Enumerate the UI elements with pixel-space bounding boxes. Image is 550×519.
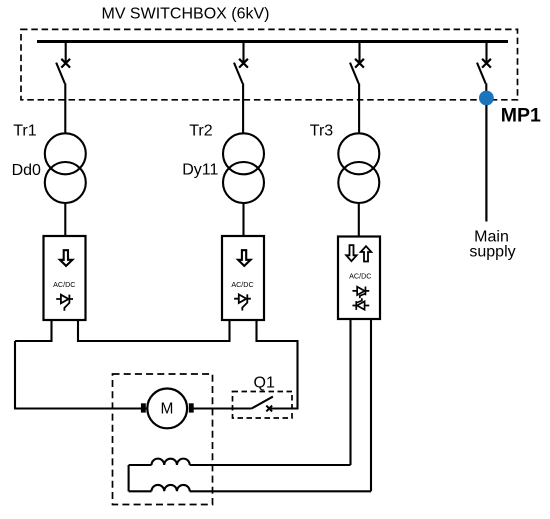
svg-text:AC/DC: AC/DC: [349, 272, 371, 281]
wire U1 right terminal to U2 left terminal (DC rail): [78, 320, 230, 341]
busbar: [37, 40, 508, 43]
breaker CB1 stub: [65, 42, 67, 63]
svg-text:Tr3: Tr3: [310, 123, 334, 140]
converter U3 up-arrow: [361, 246, 372, 261]
transformer Tr2: [223, 133, 264, 174]
breaker CB4 contact X: [482, 59, 491, 68]
wire CB1 to Tr1: [64, 83, 66, 134]
node MP1 (blue dot): [479, 91, 494, 106]
converter U3 thyristor symbol right: [352, 287, 369, 299]
motor brush right: [189, 403, 194, 412]
switch Q1 contact X: [266, 406, 272, 412]
converter U2 down-arrow: [238, 250, 251, 266]
wire U3 right terminal to L2: [370, 319, 372, 491]
MV switchbox dashed enclosure: [21, 29, 518, 99]
converter U1 down-arrow: [60, 250, 73, 266]
svg-text:AC/DC: AC/DC: [53, 280, 75, 289]
converter U1 thyristor symbol: [56, 295, 73, 311]
wire U2 right terminal to Q1: [257, 320, 298, 409]
svg-text:Tr2: Tr2: [189, 123, 213, 140]
motor M armature: [147, 389, 187, 429]
svg-text:Q1: Q1: [254, 374, 275, 391]
breaker CB4 stub: [485, 42, 487, 63]
converter U3 box: [338, 237, 380, 320]
converter U3 thyristor symbol left: [352, 298, 369, 310]
switch Q1 dashed enclosure: [233, 392, 293, 419]
wire CB3 to Tr3: [358, 83, 360, 134]
wire U1 left terminal: [15, 320, 52, 341]
wire CB2 to Tr2: [242, 83, 244, 134]
svg-text:Tr1: Tr1: [13, 123, 37, 140]
wire Tr1 to converter U1: [64, 203, 66, 236]
transformer Tr1: [45, 133, 86, 174]
breaker CB2 blade: [234, 63, 243, 84]
breaker CB3 blade: [350, 63, 359, 84]
wire Tr2 to converter U2: [242, 203, 244, 236]
converter U3 down-arrow: [346, 245, 357, 261]
svg-text:MP1: MP1: [501, 105, 541, 127]
converter U2 box: [222, 236, 264, 320]
switch Q1 blade: [252, 397, 273, 409]
transformer Tr3: [338, 133, 379, 174]
svg-text:AC/DC: AC/DC: [231, 280, 253, 289]
svg-text:M: M: [161, 400, 174, 417]
breaker CB1 contact X: [61, 59, 70, 68]
svg-text:Dd0: Dd0: [12, 162, 41, 179]
svg-text:supply: supply: [469, 243, 515, 260]
wire U3 left terminal to L1: [349, 319, 351, 465]
breaker CB4 blade: [477, 63, 486, 84]
wire motor to Q1: [194, 407, 252, 409]
wire MP1 to Main supply: [485, 105, 487, 222]
field winding L2 (lower): [129, 485, 371, 491]
wire left DC leg to motor: [15, 341, 147, 409]
svg-text:MV SWITCHBOX (6kV): MV SWITCHBOX (6kV): [101, 6, 269, 23]
svg-text:Dy11: Dy11: [182, 161, 218, 178]
wire CB4 to MP1 node: [485, 83, 487, 94]
converter U2 thyristor symbol: [234, 294, 251, 310]
converter U1 box: [44, 236, 86, 320]
breaker CB2 stub: [242, 42, 244, 63]
breaker CB3 contact X: [355, 59, 364, 68]
breaker CB3 stub: [358, 42, 360, 63]
breaker CB2 contact X: [239, 59, 248, 68]
breaker CB1 blade: [56, 63, 65, 84]
motor dashed enclosure: [113, 374, 213, 505]
wire L1-L2 series link: [128, 465, 130, 491]
motor brush left: [141, 403, 146, 412]
wire Tr3 to converter U3: [358, 203, 360, 237]
field winding L1 (upper): [129, 459, 351, 465]
